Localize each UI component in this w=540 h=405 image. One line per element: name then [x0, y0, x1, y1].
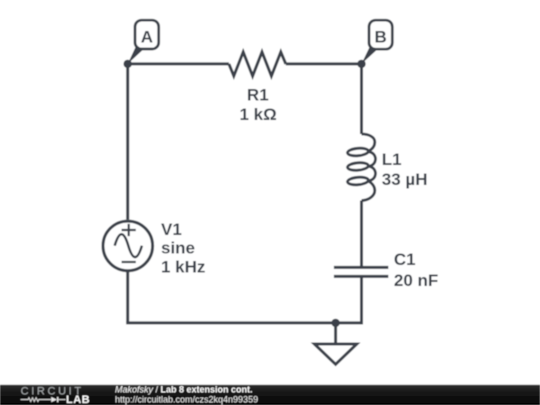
ground symbol: [314, 344, 356, 364]
svg-text:http://circuitlab.com/czs2kq4n: http://circuitlab.com/czs2kq4n99359: [115, 394, 258, 404]
wire bottom rail: [126, 321, 361, 324]
C1 value 20 nF: [394, 271, 438, 290]
svg-text:sine: sine: [161, 239, 195, 258]
svg-text:R1: R1: [247, 86, 269, 105]
voltage source V1 circle: [103, 221, 153, 271]
svg-text:B: B: [374, 27, 386, 46]
svg-text:Makofsky / Lab 8 extension con: Makofsky / Lab 8 extension cont.: [115, 385, 253, 395]
node B dot: [357, 60, 365, 68]
junction dot at ground tap: [331, 319, 339, 327]
V1 label: [161, 220, 182, 239]
node A letter: [141, 27, 153, 46]
wire top (node A to node B through R1): [128, 62, 362, 65]
V1 minus sign: [122, 261, 136, 263]
V1 sine symbol: [115, 234, 142, 257]
wire left (node A down to V1 and V1 to bottom rail): [126, 64, 129, 323]
svg-text:20 nF: 20 nF: [394, 271, 438, 290]
node A box: [135, 20, 159, 49]
footer url line: [115, 394, 258, 404]
ground stem wire: [334, 323, 337, 344]
svg-text:1 kHz: 1 kHz: [161, 258, 205, 277]
svg-text:33 µH: 33 µH: [382, 170, 428, 189]
node B pointer: [362, 46, 377, 64]
V1 value 1 kHz: [161, 258, 205, 277]
svg-text:A: A: [141, 27, 153, 46]
capacitor C1 bottom plate: [334, 275, 388, 278]
logo word LAB: [66, 394, 90, 405]
L1 label: [382, 150, 402, 169]
svg-text:LAB: LAB: [66, 394, 90, 405]
V1 plus sign: [122, 224, 136, 236]
R1 label: [247, 86, 269, 105]
footer bar: [0, 385, 540, 405]
svg-text:L1: L1: [382, 150, 402, 169]
resistor R1: [229, 52, 286, 76]
node A pointer: [128, 46, 143, 64]
logo resistor zigzag and diode: [21, 397, 66, 402]
L1 value 33 µH: [382, 170, 428, 189]
logo word CIRCUIT: [21, 386, 84, 398]
svg-text:C1: C1: [394, 250, 416, 269]
footer title line: [115, 385, 253, 395]
svg-text:1 kΩ: 1 kΩ: [239, 105, 276, 124]
R1 value 1 kΩ: [239, 105, 276, 124]
C1 label: [394, 250, 416, 269]
node B letter: [374, 27, 386, 46]
svg-text:V1: V1: [161, 220, 182, 239]
node B box: [369, 20, 392, 49]
V1 type sine: [161, 239, 195, 258]
wire right (node B to L1, L1 to C1, C1 to bottom rail): [360, 64, 363, 325]
inductor L1 coil: [347, 134, 375, 201]
capacitor C1 top plate: [334, 266, 388, 269]
node A dot: [124, 60, 132, 68]
